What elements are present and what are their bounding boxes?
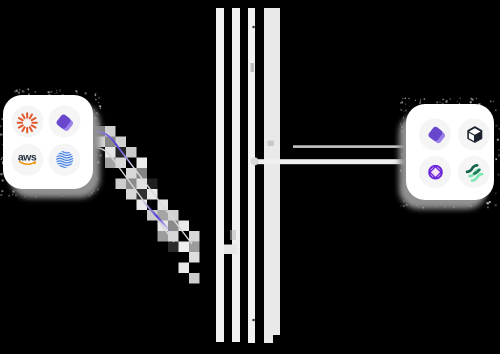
dark dot on bar3 bottom xyxy=(252,319,255,322)
left card shadow xyxy=(10,104,100,198)
wire beam2 from left card xyxy=(93,148,174,243)
logo aws xyxy=(18,151,37,164)
vertical rail bar2 xyxy=(232,8,240,342)
logo orange spinner xyxy=(18,113,37,132)
junction dot on bar3 for lineB xyxy=(250,157,258,165)
wire lineA to right card xyxy=(293,145,406,148)
right card shadow xyxy=(399,113,487,209)
junction square between beams and bar2 xyxy=(224,245,237,255)
logo black cube xyxy=(468,127,482,142)
vertical rail bar3 xyxy=(248,8,255,343)
right card xyxy=(406,104,494,200)
jpeg-artifact blocks along diagonal beams xyxy=(95,126,200,284)
right tile 1 xyxy=(419,119,451,151)
wire lineB to right card xyxy=(253,159,406,164)
vertical rail bar4 xyxy=(264,8,280,343)
gray smudge on bar3 xyxy=(251,63,255,72)
left card xyxy=(3,95,93,189)
logo purple weave ring xyxy=(429,166,442,179)
noise speckle ring left card xyxy=(0,89,102,198)
wire beam1 from left card xyxy=(93,132,192,245)
left tile 3 xyxy=(12,144,44,176)
left tile 1 xyxy=(12,106,44,138)
noise speckle ring right card xyxy=(400,98,500,209)
logo purple gem (right card) xyxy=(427,126,446,145)
vertical rail bar1 xyxy=(216,8,224,342)
right tile 3 xyxy=(419,156,451,188)
right tile 4 xyxy=(458,156,490,188)
left tile 4 xyxy=(49,144,81,176)
dark dot on bar3 top xyxy=(252,26,255,29)
left tile 2 xyxy=(49,106,81,138)
small smudge on bar2 xyxy=(230,230,236,240)
logo blue wave globe xyxy=(55,151,74,168)
right tile 2 xyxy=(458,119,490,151)
node square on bar4 xyxy=(268,141,275,147)
logo purple gem (left card) xyxy=(55,113,74,132)
logo green stripes xyxy=(467,165,483,182)
